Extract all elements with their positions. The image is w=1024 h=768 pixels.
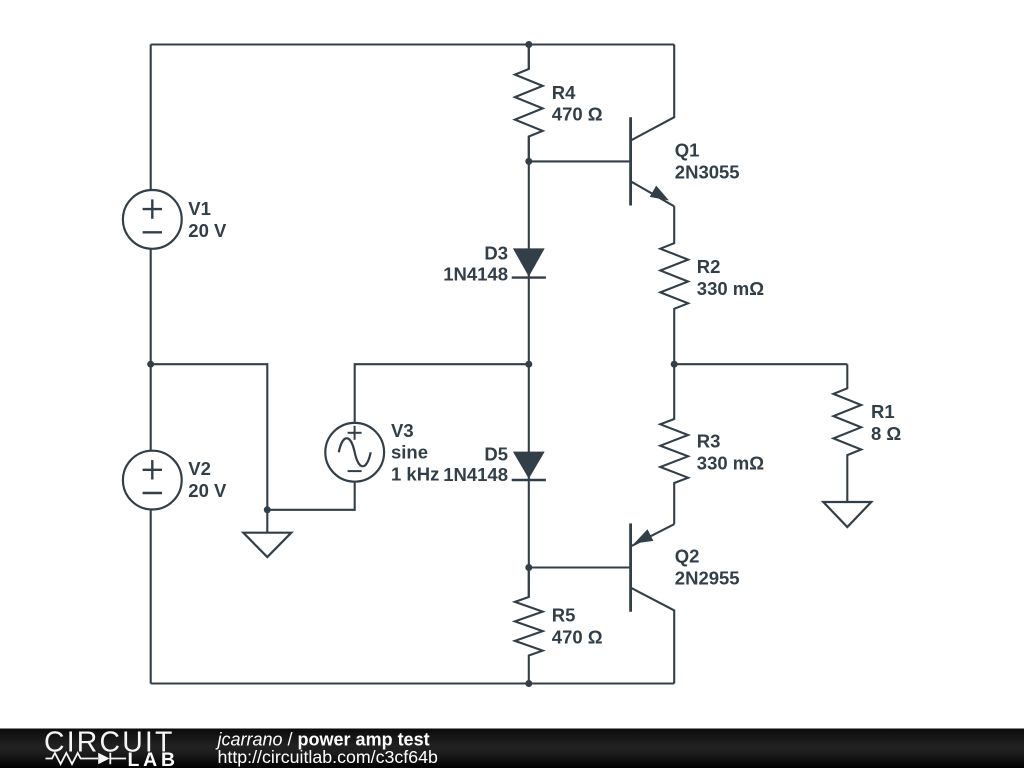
svg-text:Q2: Q2 [675,546,700,567]
svg-text:R5: R5 [552,604,576,625]
svg-text:V1: V1 [188,198,211,219]
svg-text:R1: R1 [871,401,895,422]
svg-text:1N4148: 1N4148 [443,264,508,285]
svg-text:20 V: 20 V [188,480,227,501]
svg-text:330 mΩ: 330 mΩ [697,278,764,299]
svg-text:2N2955: 2N2955 [675,568,740,589]
svg-text:20 V: 20 V [188,220,227,241]
svg-text:330 mΩ: 330 mΩ [697,453,764,474]
svg-text:470 Ω: 470 Ω [552,626,603,647]
svg-text:1 kHz: 1 kHz [391,463,439,484]
svg-text:D3: D3 [484,243,508,264]
svg-text:8 Ω: 8 Ω [871,423,901,444]
svg-text:LAB: LAB [128,749,179,768]
svg-text:http://circuitlab.com/c3cf64b: http://circuitlab.com/c3cf64b [218,747,439,767]
svg-text:1N4148: 1N4148 [443,464,508,485]
svg-text:D5: D5 [484,444,508,465]
svg-text:R3: R3 [697,431,721,452]
svg-text:R2: R2 [697,256,721,277]
svg-text:sine: sine [391,442,428,463]
svg-text:470 Ω: 470 Ω [552,104,603,125]
svg-text:Q1: Q1 [675,140,700,161]
svg-text:R4: R4 [552,82,576,103]
svg-text:V3: V3 [391,420,414,441]
svg-text:V2: V2 [188,458,211,479]
svg-text:2N3055: 2N3055 [675,161,740,182]
